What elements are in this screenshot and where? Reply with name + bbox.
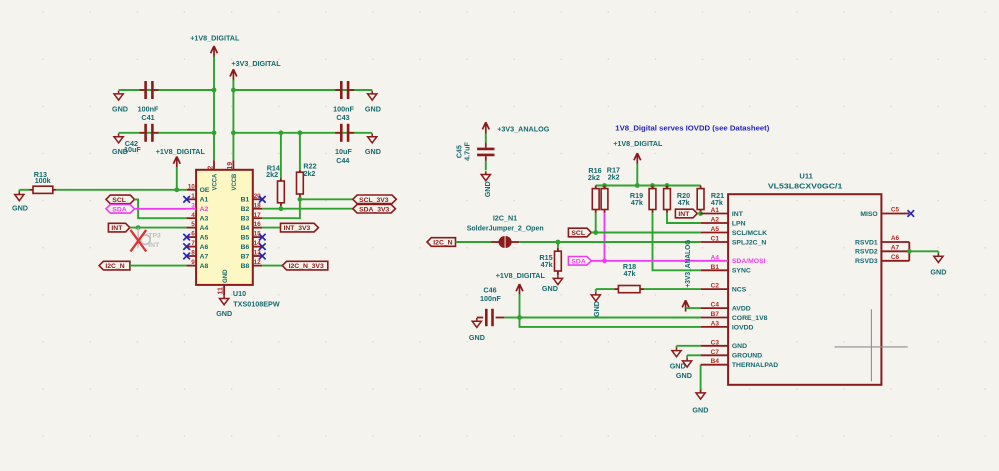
svg-text:A2: A2 <box>711 217 720 224</box>
svg-text:2k2: 2k2 <box>266 170 278 179</box>
svg-text:SCL: SCL <box>571 230 585 237</box>
svg-text:17: 17 <box>254 212 262 219</box>
svg-text:TXS0108EPW: TXS0108EPW <box>233 300 280 309</box>
svg-text:19: 19 <box>227 162 234 170</box>
svg-text:11: 11 <box>218 287 225 295</box>
junction RSVD2/GND <box>907 249 912 254</box>
resistor R13 (100k) <box>19 170 186 193</box>
wire row2 right (+3V3 rail) <box>233 132 372 134</box>
wire +1V8 vertical to VCCA <box>213 57 215 161</box>
junction C46/+1V8/CORE_1V8 <box>517 315 522 320</box>
svg-text:GND: GND <box>216 309 232 318</box>
junction R22/row2 <box>298 130 303 135</box>
svg-text:B8: B8 <box>241 263 250 270</box>
svg-text:C3: C3 <box>711 339 720 346</box>
hierarchical label SDA <box>106 205 135 214</box>
capacitor C44 <box>335 124 354 165</box>
svg-text:I2C_N: I2C_N <box>433 240 452 247</box>
U11 pin C5 (MISO) <box>860 207 909 218</box>
wire B3 to SCL_3V3 <box>262 199 353 218</box>
junction rail/R20 <box>665 183 670 188</box>
U11 pin B7 (CORE_1V8) <box>701 311 768 322</box>
wire INT to U11 A1 <box>697 213 700 215</box>
svg-text:I2C_N_3V3: I2C_N_3V3 <box>289 263 324 270</box>
capacitor C45 (4.7uF) <box>454 134 494 171</box>
junction rail/+1V8 <box>635 183 640 188</box>
svg-text:10uF: 10uF <box>335 147 352 156</box>
U10 pin 13 (B7) <box>241 250 266 261</box>
test point TP3 (ghosted, deleted) <box>138 228 161 250</box>
svg-text:SCL: SCL <box>112 197 126 204</box>
svg-text:47k: 47k <box>678 198 690 207</box>
svg-text:4.7uF: 4.7uF <box>463 142 472 161</box>
power +3V3_ANALOG (AVDD) <box>682 239 701 311</box>
U10 pin 20 (B1) <box>241 193 266 204</box>
ground GND (U10 pin 11) <box>216 295 232 318</box>
svg-text:47k: 47k <box>624 269 636 278</box>
ground GND (C45) <box>481 171 492 197</box>
hierarchical label INT_3V3 <box>281 223 319 232</box>
svg-text:7: 7 <box>191 240 195 247</box>
svg-text:47k: 47k <box>631 198 643 207</box>
U10 pin 1 (A1) <box>183 193 208 204</box>
svg-text:AVDD: AVDD <box>732 306 751 313</box>
svg-text:A3: A3 <box>711 320 720 327</box>
svg-text:+3V3_ANALOG: +3V3_ANALOG <box>497 124 550 133</box>
svg-text:INT: INT <box>678 211 690 218</box>
svg-text:MISO: MISO <box>860 211 877 218</box>
svg-text:C7: C7 <box>711 349 720 356</box>
power +1V8_DIGITAL (top) <box>190 34 240 58</box>
svg-text:C43: C43 <box>336 113 349 122</box>
svg-text:+3V3_DIGITAL: +3V3_DIGITAL <box>231 59 281 68</box>
svg-text:B1: B1 <box>241 197 250 204</box>
power +1V8_DIGITAL (pullup rail) <box>613 139 663 164</box>
svg-text:CORE_1V8: CORE_1V8 <box>732 315 768 322</box>
svg-text:C5: C5 <box>891 207 900 214</box>
hierarchical label I2C_N_3V3 <box>282 261 328 270</box>
U11 pin A5 (SCL/MCLK) <box>701 226 767 237</box>
wire B8 to I2C_N_3V3 <box>262 265 282 267</box>
wire I2C_N to A8 <box>130 265 187 267</box>
wire RSVD to ground <box>909 250 938 252</box>
svg-text:2k2: 2k2 <box>588 173 600 182</box>
junction R21/INT <box>698 211 703 216</box>
op-amp U11 body (VL53L8CXV0GC/1) <box>728 194 881 385</box>
svg-text:A8: A8 <box>200 263 209 270</box>
svg-text:TP3: TP3 <box>148 233 161 240</box>
svg-text:SCL_3V3: SCL_3V3 <box>359 197 389 204</box>
U10 reference/value <box>233 289 280 309</box>
svg-text:THERNALPAD: THERNALPAD <box>732 362 778 369</box>
wire I2C_N to jumper <box>456 241 492 243</box>
hierarchical label I2C_N (right) <box>427 238 456 247</box>
U11 pin A4 (SDA/MOSI) <box>701 254 766 265</box>
capacitor C41 <box>138 81 159 122</box>
svg-text:GND: GND <box>676 371 692 380</box>
svg-text:47k: 47k <box>541 260 553 269</box>
svg-text:GND: GND <box>483 181 492 197</box>
svg-text:GND: GND <box>12 204 28 213</box>
hierarchical label INT (right) <box>675 209 697 218</box>
cursor crosshair <box>835 309 908 381</box>
resistor R19 (47k) <box>630 186 701 271</box>
svg-text:GROUND: GROUND <box>732 353 762 360</box>
svg-text:10uF: 10uF <box>124 145 141 154</box>
svg-text:A7: A7 <box>200 253 209 260</box>
svg-text:4: 4 <box>191 212 195 219</box>
wire jumper to U11 C1 <box>519 241 701 243</box>
U11 pin A2 (LPN) <box>701 217 746 228</box>
U10 pin 11 (GND) <box>218 269 229 295</box>
svg-text:U10: U10 <box>233 289 246 298</box>
wire THERNALPAD to ground <box>700 365 702 393</box>
wire SDA to U11 A4 (highlighted) <box>591 260 700 262</box>
ground GND (R13) <box>12 190 28 213</box>
wire IOVDD branch <box>520 318 701 327</box>
svg-text:+1V8_DIGITAL: +1V8_DIGITAL <box>156 147 206 156</box>
svg-text:SYNC: SYNC <box>732 268 751 275</box>
svg-text:C41: C41 <box>141 113 154 122</box>
svg-text:GND: GND <box>542 284 558 293</box>
op-amp U10 body (TXS0108EPW level shifter) <box>196 170 253 285</box>
power +3V3_ANALOG (C45) <box>482 122 549 133</box>
svg-text:6: 6 <box>191 231 195 238</box>
svg-text:5: 5 <box>191 221 195 228</box>
junction R14/B2 <box>279 206 284 211</box>
svg-text:RSVD3: RSVD3 <box>855 258 878 265</box>
U10 pin 9 (A8) <box>187 259 209 270</box>
svg-text:VCCA: VCCA <box>212 173 219 190</box>
svg-text:B4: B4 <box>241 225 250 232</box>
wire CORE_1V8 net <box>520 317 701 319</box>
U10 pin 2 (VCCA) <box>208 160 219 190</box>
svg-text:SDA/MOSI: SDA/MOSI <box>732 258 766 265</box>
ground GND (row2 right) <box>365 134 381 157</box>
svg-text:B6: B6 <box>241 244 250 251</box>
svg-text:8: 8 <box>191 250 195 257</box>
svg-text:A6: A6 <box>200 244 209 251</box>
junction rail/R17 <box>602 183 607 188</box>
junction +3V3/row1 <box>231 88 236 93</box>
svg-text:B1: B1 <box>711 264 720 271</box>
svg-text:LPN: LPN <box>732 220 746 227</box>
junction R15/I2C_N <box>556 240 561 245</box>
svg-text:B3: B3 <box>241 216 250 223</box>
no-connect X (MISO) <box>908 210 915 217</box>
U11 pin B4 (THERNALPAD) <box>701 358 779 369</box>
U10 pin 16 (B4) <box>241 221 263 232</box>
U10 pin 3 (A2) <box>187 202 209 213</box>
svg-text:OE: OE <box>200 187 210 194</box>
svg-text:16: 16 <box>254 221 262 228</box>
U10 pin 15 (B5) <box>241 231 266 242</box>
hierarchical label I2C_N (left) <box>99 261 130 270</box>
svg-text:100nF: 100nF <box>480 294 501 303</box>
junction R16/SCL <box>593 230 598 235</box>
svg-text:C6: C6 <box>891 254 900 261</box>
hierarchical label SCL (right) <box>568 228 591 237</box>
U11 reference/value <box>768 172 843 191</box>
resistor R15 (47k pulldown) <box>539 242 561 275</box>
wire SCL to A3 <box>135 199 187 218</box>
svg-text:GND: GND <box>592 301 601 317</box>
U10 pin 4 (A3) <box>187 212 209 223</box>
svg-text:A4: A4 <box>711 254 720 261</box>
junction +3V3/row2 <box>231 130 236 135</box>
svg-text:A7: A7 <box>891 244 900 251</box>
ground GND (RSVD) <box>930 251 946 276</box>
svg-text:+3V3_ANALOG: +3V3_ANALOG <box>683 239 692 287</box>
U10 pin 5 (A4) <box>187 221 209 232</box>
wire +1V8 to rail <box>636 164 638 186</box>
svg-text:10: 10 <box>188 183 196 190</box>
resistor R14 (2k2 pullup) <box>266 133 284 209</box>
svg-text:+1V8_DIGITAL: +1V8_DIGITAL <box>190 34 240 43</box>
svg-text:9: 9 <box>191 259 195 266</box>
U10 pin 14 (B6) <box>241 240 266 251</box>
svg-text:RSVD2: RSVD2 <box>855 249 878 256</box>
U11 pin C3 (GND) <box>701 339 747 350</box>
wire SCL to U11 A5 <box>591 232 700 234</box>
svg-text:VL53L8CXV0GC/1: VL53L8CXV0GC/1 <box>768 182 843 191</box>
svg-text:C2: C2 <box>711 283 720 290</box>
svg-text:A6: A6 <box>891 235 900 242</box>
svg-text:C1: C1 <box>711 236 720 243</box>
svg-text:INT: INT <box>732 211 744 218</box>
svg-text:A1: A1 <box>200 197 209 204</box>
junction INT/TP3 <box>136 225 141 230</box>
svg-text:INT: INT <box>111 225 123 232</box>
wire row1 right (+3V3 rail) <box>233 89 372 91</box>
svg-text:A5: A5 <box>711 226 720 233</box>
note text (blue) <box>615 125 769 132</box>
svg-text:+1V8_DIGITAL: +1V8_DIGITAL <box>613 139 663 148</box>
svg-text:1V8_Digital serves IOVDD (see: 1V8_Digital serves IOVDD (see Datasheet) <box>615 125 769 132</box>
capacitor C42 <box>124 124 158 154</box>
svg-text:A5: A5 <box>200 235 209 242</box>
U11 pin B1 (SYNC) <box>701 264 751 275</box>
U11 pin C4 (AVDD) <box>701 302 751 313</box>
svg-text:1: 1 <box>191 193 195 200</box>
svg-text:A3: A3 <box>200 216 209 223</box>
wire U11 GROUND pin to ground <box>687 355 701 357</box>
red X deletion mark over TP3 <box>131 230 147 252</box>
solder jumper I2C_N1 (SolderJumper_2_Open) <box>467 214 544 248</box>
power +3V3_DIGITAL <box>230 59 281 81</box>
ground GND (U11 C7) <box>676 358 692 380</box>
wire row1 left (+1V8 rail) <box>119 89 214 91</box>
svg-text:B4: B4 <box>711 358 720 365</box>
ground GND (R15) <box>542 275 563 293</box>
svg-text:VCCB: VCCB <box>231 173 238 190</box>
capacitor C43 <box>333 81 354 122</box>
svg-text:I2C_N1: I2C_N1 <box>493 214 517 223</box>
svg-text:SolderJumper_2_Open: SolderJumper_2_Open <box>467 224 544 233</box>
resistor R17 (2k2) <box>601 165 620 260</box>
ground GND (C46) <box>469 318 485 342</box>
junction R17/SDA <box>602 258 607 263</box>
hierarchical label INT <box>108 223 129 232</box>
U11 pin C1 (SPLJ2C_N) <box>701 236 767 247</box>
svg-text:C4: C4 <box>711 302 720 309</box>
hierarchical label SDA_3V3 <box>353 204 396 213</box>
hierarchical label SCL <box>106 195 135 204</box>
U11 pin A3 (IOVDD) <box>701 320 754 331</box>
U10 pin 8 (A7) <box>183 250 208 261</box>
U11 pin A1 (INT) <box>701 207 744 218</box>
wire +3V3 vertical to VCCB <box>232 80 234 161</box>
junction +1V8/row2 <box>212 130 217 135</box>
svg-text:+1V8_DIGITAL: +1V8_DIGITAL <box>496 271 546 280</box>
resistor R22 (2k2 pullup) <box>297 133 317 200</box>
U11 pin A6 (RSVD1) <box>855 235 909 246</box>
ground GND (row1 left) <box>112 91 128 114</box>
wire pullup rail <box>596 185 701 187</box>
svg-text:GND: GND <box>365 147 381 156</box>
svg-text:I2C_N: I2C_N <box>105 263 124 270</box>
svg-text:100k: 100k <box>35 176 51 185</box>
wire +1V8 to C46 node <box>519 294 521 318</box>
hierarchical label SCL_3V3 <box>353 195 397 204</box>
svg-text:IOVDD: IOVDD <box>732 324 754 331</box>
svg-text:A2: A2 <box>200 206 209 213</box>
junction R22/SCL_3V3 <box>298 197 303 202</box>
U11 pin C6 (RSVD3) <box>855 254 909 265</box>
svg-text:GND: GND <box>930 268 946 277</box>
U10 pin 10 (OE) <box>187 183 210 194</box>
svg-text:A1: A1 <box>711 207 720 214</box>
wire INT to A4 <box>130 227 187 229</box>
wire U11 GND pin to ground <box>677 346 701 348</box>
power +1V8_DIGITAL (OE pullup) <box>156 147 206 190</box>
junction rail/R19 <box>650 183 655 188</box>
svg-text:SCL/MCLK: SCL/MCLK <box>732 230 767 237</box>
svg-text:GND: GND <box>732 343 747 350</box>
svg-text:GND: GND <box>692 405 708 414</box>
hierarchical label SDA (right) <box>568 257 591 266</box>
svg-text:B5: B5 <box>241 235 250 242</box>
U10 pin 6 (A5) <box>183 231 208 242</box>
svg-text:GND: GND <box>469 333 485 342</box>
svg-text:B2: B2 <box>241 206 250 213</box>
junction +1V8/row1 <box>212 88 217 93</box>
svg-text:2k2: 2k2 <box>608 172 620 181</box>
svg-text:18: 18 <box>254 202 262 209</box>
resistor R20 (47k) <box>664 186 701 224</box>
svg-text:SPLJ2C_N: SPLJ2C_N <box>732 239 766 246</box>
capacitor C46 (100nF) <box>477 285 520 326</box>
svg-text:47k: 47k <box>711 198 723 207</box>
U11 pin A7 (RSVD2) <box>855 244 909 255</box>
svg-text:GND: GND <box>365 104 381 113</box>
wire row2 left (+1V8 rail) <box>119 132 214 134</box>
svg-text:SDA: SDA <box>112 206 126 213</box>
resistor R16 (2k2) <box>588 166 602 233</box>
svg-text:GND: GND <box>222 269 229 283</box>
ground GND (row2 left) <box>112 134 128 157</box>
svg-text:SDA_3V3: SDA_3V3 <box>359 206 389 213</box>
svg-text:SDA: SDA <box>571 258 585 265</box>
svg-text:100nF: 100nF <box>333 104 354 113</box>
svg-text:GND: GND <box>112 104 128 113</box>
U10 pin 7 (A6) <box>183 240 208 251</box>
ground GND (U11 C3) <box>670 347 686 370</box>
U11 pin C2 (NCS) <box>701 283 747 294</box>
resistor R18 (47k pulldown on NCS) <box>596 262 701 293</box>
svg-text:B7: B7 <box>711 311 720 318</box>
svg-text:100nF: 100nF <box>138 104 159 113</box>
svg-text:RSVD1: RSVD1 <box>855 239 878 246</box>
U10 pin 12 (B8) <box>241 259 263 270</box>
svg-text:2: 2 <box>208 166 215 170</box>
U10 pin 18 (B2) <box>241 202 263 213</box>
wire RSVD tie <box>908 242 910 261</box>
junction OE/+1V8 <box>174 187 179 192</box>
svg-text:NCS: NCS <box>732 287 747 294</box>
U10 pin 17 (B3) <box>241 212 263 223</box>
svg-text:A4: A4 <box>200 225 209 232</box>
wire B2 to SDA_3V3 <box>262 208 353 210</box>
wire B4 to INT_3V3 <box>262 227 280 229</box>
U10 pin 19 (VCCB) <box>227 160 238 190</box>
svg-text:INT_3V3: INT_3V3 <box>284 225 311 232</box>
svg-text:3: 3 <box>191 202 195 209</box>
svg-text:12: 12 <box>254 259 262 266</box>
svg-text:B7: B7 <box>241 253 250 260</box>
resistor R21 (47k) <box>697 186 724 214</box>
svg-text:INT: INT <box>148 242 160 249</box>
ground GND (row1 right) <box>365 91 381 114</box>
wire SDA to A2 (highlighted) <box>135 208 187 210</box>
junction R14/row2 <box>279 130 284 135</box>
svg-text:C44: C44 <box>336 156 349 165</box>
svg-text:2k2: 2k2 <box>303 169 315 178</box>
svg-text:U11: U11 <box>799 172 812 181</box>
U11 pin C7 (GROUND) <box>701 349 762 360</box>
ground GND (THERNALPAD) <box>692 390 708 415</box>
ground GND (R18) <box>591 289 601 317</box>
power +1V8_DIGITAL (C46) <box>496 271 546 295</box>
